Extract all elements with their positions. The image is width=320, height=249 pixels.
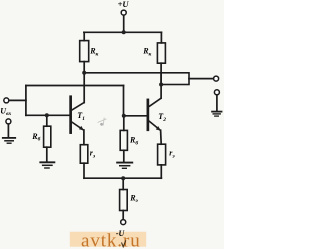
wire Rb2 top lead <box>123 116 125 131</box>
resistor output coupling (horizontal) <box>161 73 189 85</box>
wire input terminal lead <box>9 99 26 101</box>
svg-text:-U: -U <box>116 229 126 238</box>
svg-text:+U: +U <box>118 0 130 9</box>
wire output lead <box>189 78 214 80</box>
wire Re top lead <box>122 178 124 189</box>
svg-text:Rэ: Rэ <box>129 193 138 204</box>
resistor Re <box>120 190 128 211</box>
svg-text:T2: T2 <box>158 112 166 123</box>
svg-text:rэ: rэ <box>90 149 96 160</box>
terminal +U <box>121 10 126 15</box>
junction T2 base / Rb2 <box>122 114 126 118</box>
watermark avtk.ru <box>70 230 146 249</box>
wire top supply rail <box>84 31 161 33</box>
svg-text:Rб: Rб <box>31 132 40 143</box>
wire T2 base <box>124 115 148 117</box>
wire input top line to T2 base column <box>26 85 124 87</box>
resistor Rk1 <box>80 41 89 62</box>
resistor re2 <box>158 144 166 165</box>
junction T1 base / Rb1 <box>45 113 49 117</box>
wire Rk2 top stub <box>160 32 162 43</box>
terminal input lower <box>6 119 11 124</box>
wire Re bottom lead <box>122 211 124 220</box>
terminal input upper <box>4 98 9 103</box>
wire T1 collector column <box>83 62 85 103</box>
wire bottom emitter rail <box>84 177 161 179</box>
transistor T1 <box>70 96 85 134</box>
transistor T2 <box>147 98 161 131</box>
svg-text:Rб: Rб <box>129 136 138 147</box>
ground Rb2 <box>116 163 133 169</box>
wire +U stub <box>123 15 125 32</box>
junction output resistor corner <box>159 83 163 87</box>
ground Rb1 <box>39 162 55 168</box>
svg-text:rэ: rэ <box>169 149 175 160</box>
wire T2 base column <box>123 86 125 116</box>
svg-text:Rк: Rк <box>142 47 151 58</box>
junction supply rail <box>122 30 126 34</box>
wire input vertical <box>25 86 27 116</box>
stray mark near T1 <box>98 118 107 126</box>
wire T1 base <box>26 114 70 116</box>
stray glyph below -U <box>122 240 126 247</box>
resistor Rk2 <box>157 43 165 63</box>
svg-text:Rк: Rк <box>89 47 98 58</box>
resistor re1 <box>80 145 88 164</box>
wire collector T1 to output node <box>84 72 161 74</box>
wire re1 bottom lead <box>83 163 85 178</box>
terminal output upper <box>214 76 219 81</box>
wire Rb1 bottom lead <box>46 147 48 161</box>
wire T1 emitter lead <box>83 130 85 145</box>
wire input ground lead <box>7 124 9 137</box>
wire Rb2 ground lead <box>123 150 125 161</box>
wire T2 collector column <box>160 63 162 98</box>
wire T2 emitter lead <box>160 130 163 144</box>
resistor Rb2 <box>120 130 127 150</box>
svg-text:Uвх: Uвх <box>0 107 11 118</box>
svg-text:avtk.ru: avtk.ru <box>81 230 141 249</box>
wire Rb1 top lead <box>46 115 48 126</box>
ground input <box>2 138 16 143</box>
wire output ground lead <box>216 95 218 111</box>
junction emitter rail / Re <box>121 176 125 180</box>
junction T1 collector node <box>82 71 86 75</box>
svg-text:T1: T1 <box>77 111 85 122</box>
resistor Rb1 <box>44 126 51 147</box>
wire Rk1 top stub <box>83 32 85 40</box>
ground output <box>211 112 222 117</box>
terminal -U <box>121 220 126 225</box>
wire re2 bottom lead <box>160 165 162 178</box>
terminal output lower <box>214 90 219 95</box>
